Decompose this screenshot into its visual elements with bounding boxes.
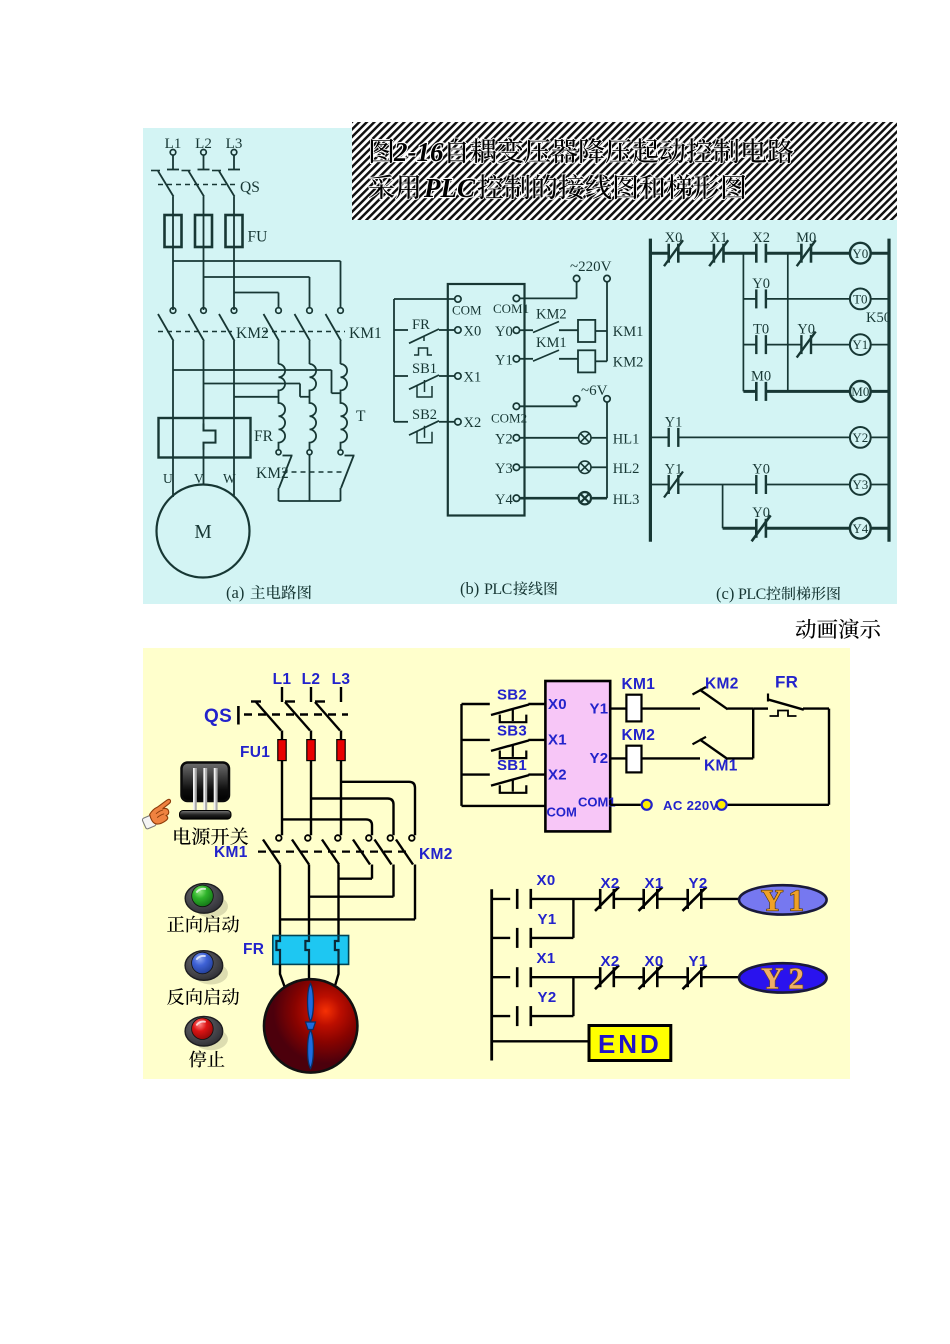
svg-text:FR: FR xyxy=(254,428,274,445)
svg-text:W: W xyxy=(223,471,236,486)
svg-text:FR: FR xyxy=(775,673,798,692)
svg-text:KM1: KM1 xyxy=(349,325,382,342)
svg-text:KM1: KM1 xyxy=(214,844,248,861)
svg-text:Y1: Y1 xyxy=(852,337,868,352)
anim contact X1 NC xyxy=(642,889,645,909)
svg-text:Y0: Y0 xyxy=(752,505,770,521)
svg-text:Y1: Y1 xyxy=(665,415,683,431)
svg-text:SB3: SB3 xyxy=(497,723,527,740)
anim rung2 wire3 xyxy=(614,976,644,978)
svg-text:Y0: Y0 xyxy=(752,462,770,478)
svg-text:KM1: KM1 xyxy=(613,324,644,340)
svg-text:KM1: KM1 xyxy=(704,758,738,775)
svg-text:~220V: ~220V xyxy=(570,259,612,275)
svg-text:X2: X2 xyxy=(601,953,620,970)
coil M0 xyxy=(850,381,871,402)
label 反向启动 xyxy=(167,988,239,1005)
svg-text:X1: X1 xyxy=(464,370,482,386)
transformer T coil xyxy=(310,364,317,450)
anim crossover KM2-1 to W xyxy=(371,865,373,879)
svg-text:KM2: KM2 xyxy=(256,465,289,482)
svg-text:Y0: Y0 xyxy=(797,322,815,338)
anim branch L2 to KM2 col2 xyxy=(311,799,394,836)
svg-text:FU1: FU1 xyxy=(240,744,270,761)
svg-text:X0: X0 xyxy=(665,230,683,246)
anim motor phase W xyxy=(337,865,339,936)
FR notch xyxy=(305,936,309,964)
AC supply row xyxy=(610,804,641,806)
anim rung1 wire4 xyxy=(657,898,687,900)
anim rung Y1 wire xyxy=(531,937,574,939)
anim wire FR to motor U xyxy=(280,964,288,996)
coil Y0 xyxy=(850,243,871,264)
svg-text:Y3: Y3 xyxy=(852,477,868,492)
svg-text:HL1: HL1 xyxy=(613,431,640,447)
svg-text:M0: M0 xyxy=(751,369,771,385)
terminal 220V right xyxy=(604,275,610,281)
button red stop xyxy=(194,1028,228,1050)
svg-text:FU: FU xyxy=(248,229,268,246)
contactor KM2 main contact xyxy=(231,308,237,314)
svg-text:M: M xyxy=(194,522,211,543)
label 停止 xyxy=(189,1050,224,1067)
svg-text:FR: FR xyxy=(243,941,264,958)
anim KM1 contact 2 xyxy=(305,835,311,841)
anim contact Y2 NC xyxy=(686,889,689,909)
coil ellipse Y2 xyxy=(739,963,827,992)
svg-text:X0: X0 xyxy=(548,696,567,713)
terminal 6V left xyxy=(573,396,579,402)
label 正向启动 xyxy=(167,915,239,932)
fuse FU xyxy=(165,215,182,247)
output Y2 lamp HL1 xyxy=(513,435,519,441)
svg-text:END: END xyxy=(598,1029,662,1059)
svg-text:U: U xyxy=(163,471,173,486)
KM2 dashed link xyxy=(158,331,232,333)
output COM2 xyxy=(513,403,519,409)
anim rung1 wire xyxy=(492,898,511,900)
wire to FR xyxy=(753,707,768,709)
anim wire FR to motor V xyxy=(308,964,310,980)
motor ball xyxy=(264,979,357,1072)
svg-text:COM: COM xyxy=(452,303,482,318)
svg-text:X2: X2 xyxy=(601,875,620,892)
button green start-forward xyxy=(194,895,228,917)
svg-text:T: T xyxy=(356,408,366,425)
anim rung2 wire4 xyxy=(657,976,687,978)
svg-text:COM1: COM1 xyxy=(578,795,616,810)
svg-text:(a): (a) xyxy=(226,583,244,602)
anim rung2 wire5 xyxy=(701,976,739,978)
svg-text:AC 220V: AC 220V xyxy=(663,798,719,813)
KM2 star dashed link xyxy=(283,471,345,473)
anim contact Y2p xyxy=(516,1006,519,1026)
tap wire B to coil2 xyxy=(204,383,301,385)
caption 动画演示 xyxy=(796,619,880,639)
svg-text:L1: L1 xyxy=(273,671,292,688)
coil T0 xyxy=(850,289,871,310)
wire L1 branch to KM1 col3 xyxy=(172,247,174,310)
ladder left rail xyxy=(649,239,652,542)
input SB1 contact xyxy=(394,375,408,377)
svg-text:KM1: KM1 xyxy=(536,335,567,351)
svg-text:Y2: Y2 xyxy=(538,989,557,1006)
rung Y1 wire xyxy=(743,344,756,346)
svg-text:X1: X1 xyxy=(548,732,567,749)
svg-text:SB2: SB2 xyxy=(497,687,527,704)
cyan diagram panel xyxy=(143,128,897,604)
contact Y0 NO xyxy=(755,289,757,308)
anim contact Y1b NC xyxy=(686,967,689,987)
contactor KM1 main contact xyxy=(276,308,282,314)
FR notch xyxy=(276,936,280,964)
svg-text:KM2: KM2 xyxy=(419,846,453,863)
anim rung1 wire2 xyxy=(531,898,600,900)
contact Y0 NC rung Y4 xyxy=(755,519,758,538)
svg-text:T0: T0 xyxy=(753,322,769,338)
svg-text:Y2: Y2 xyxy=(852,430,868,445)
svg-text:COM1: COM1 xyxy=(493,301,529,316)
svg-text:Y0: Y0 xyxy=(752,276,770,292)
svg-text:QS: QS xyxy=(204,706,232,727)
wire Y1 row xyxy=(610,707,626,709)
anim wire QS to FU1 xyxy=(281,731,283,741)
PLC box (b) xyxy=(448,284,525,516)
motor M circle xyxy=(157,485,250,578)
svg-text:Y0: Y0 xyxy=(852,246,868,261)
svg-text:PLC: PLC xyxy=(484,581,512,598)
output COM1 xyxy=(513,295,519,301)
anim rung Y1 parallel xyxy=(492,937,511,939)
svg-text:Y2: Y2 xyxy=(590,750,609,767)
svg-text:Y1: Y1 xyxy=(538,911,557,928)
svg-text:Y3: Y3 xyxy=(495,461,513,477)
contactor KM2 main contact xyxy=(201,308,207,314)
contact X2 NO xyxy=(755,244,758,263)
tap wire C to coil1 xyxy=(234,396,279,398)
switch SB2 to X0 xyxy=(462,703,490,705)
switch SB1 to X2 xyxy=(462,773,490,775)
contactor KM2 star contact mid xyxy=(307,450,312,455)
anim branch Y1 xyxy=(572,899,574,938)
yellow animation panel xyxy=(143,648,850,1079)
motor propeller xyxy=(308,984,314,1022)
svg-text:(b): (b) xyxy=(460,579,479,598)
svg-text:Y2: Y2 xyxy=(495,431,513,447)
svg-text:KM1: KM1 xyxy=(622,676,656,693)
contact Y1 NC xyxy=(668,475,670,494)
anim KM1 contact 1 xyxy=(276,835,282,841)
svg-text:X2: X2 xyxy=(752,230,770,246)
anim KM2 contact 1 xyxy=(366,835,372,841)
svg-text:T0: T0 xyxy=(853,292,867,307)
output Y4 lamp HL3 xyxy=(513,495,519,501)
contactor KM1 main contact xyxy=(307,308,313,314)
anim contact X1b xyxy=(516,967,519,987)
anim wire FR to motor W xyxy=(332,964,339,996)
transformer T coil xyxy=(279,364,286,450)
svg-text:Y1: Y1 xyxy=(689,953,708,970)
switch QS xyxy=(151,170,160,172)
transformer T coil xyxy=(341,364,348,450)
svg-text:COM: COM xyxy=(547,805,577,820)
wire L3 branch to KM1 col1 xyxy=(233,247,235,310)
svg-text:Y4: Y4 xyxy=(852,521,868,536)
title line 2 xyxy=(369,173,745,203)
svg-text:HL3: HL3 xyxy=(613,492,640,508)
svg-text:KM2: KM2 xyxy=(705,676,739,693)
pointing hand xyxy=(139,799,178,830)
output Y0 KM2 interlock KM1 coil xyxy=(513,327,519,333)
svg-text:COM2: COM2 xyxy=(491,411,527,426)
anim ladder left rail xyxy=(490,889,493,1060)
svg-text:X2: X2 xyxy=(548,767,567,784)
rung T0 wire xyxy=(743,298,756,300)
coil Y3 xyxy=(850,474,871,495)
title hatched box xyxy=(352,122,897,220)
anim contact X2 NC xyxy=(599,889,602,909)
anim rung Y2 wire xyxy=(531,1015,574,1017)
tap wire A to coil3 xyxy=(173,369,332,371)
input SB2 contact xyxy=(394,421,408,423)
svg-text:X0: X0 xyxy=(645,953,664,970)
svg-text:Y2: Y2 xyxy=(689,875,708,892)
anim rung2 wire xyxy=(492,976,511,978)
star shorting bar xyxy=(279,500,341,502)
anim KM2 contact 3 xyxy=(409,835,415,841)
anim crossover KM2-2 to V xyxy=(392,865,394,897)
svg-text:Y1: Y1 xyxy=(761,883,809,918)
anim motor phase V xyxy=(308,865,310,936)
terminal 220V left xyxy=(573,275,579,281)
thermal relay FR xyxy=(159,418,251,458)
anim rung Y2 parallel xyxy=(492,1015,511,1017)
title line 1 xyxy=(371,137,793,167)
anim KM dashed link xyxy=(258,850,406,852)
svg-text:K50: K50 xyxy=(866,310,891,326)
anim FR heater box xyxy=(273,936,349,965)
wire L2 branch to KM1 col2 xyxy=(203,247,205,310)
anim contact X0 xyxy=(516,889,519,909)
svg-text:X0: X0 xyxy=(537,872,556,889)
svg-text:X0: X0 xyxy=(464,324,482,340)
wire FR to motor xyxy=(172,458,174,497)
FR notch xyxy=(335,936,339,964)
svg-text:X1: X1 xyxy=(537,950,556,967)
anim branch Y2 xyxy=(572,977,574,1016)
svg-text:M0: M0 xyxy=(796,230,816,246)
svg-text:QS: QS xyxy=(240,179,260,196)
contact Y1 NO xyxy=(668,428,670,447)
svg-text:(c): (c) xyxy=(716,584,734,603)
svg-text:SB1: SB1 xyxy=(412,361,437,377)
wire QS to FU xyxy=(172,197,174,216)
svg-text:Y1: Y1 xyxy=(590,701,609,718)
input bus xyxy=(393,299,395,422)
anim END rung xyxy=(492,1040,589,1042)
svg-text:Y1: Y1 xyxy=(495,352,513,368)
branch vertical Y3-Y4 xyxy=(722,485,724,529)
contact M0 NO xyxy=(755,382,758,401)
rung Y4 wire xyxy=(723,527,757,530)
rung Y0 wire xyxy=(650,252,668,255)
anim wires FU1 down xyxy=(281,761,283,836)
END box xyxy=(589,1026,671,1061)
contactor KM2 star contact 3 xyxy=(338,450,343,455)
anim branch L1 to KM2 col1 xyxy=(282,819,372,835)
wire COM xyxy=(394,298,455,300)
rung Y3 wire xyxy=(650,484,668,486)
svg-text:KM2: KM2 xyxy=(622,727,656,744)
svg-text:M0: M0 xyxy=(851,384,869,399)
power switch icon xyxy=(182,763,230,802)
anim right bus xyxy=(828,709,830,805)
label 电源开关 xyxy=(174,827,248,845)
output Y3 lamp HL2 xyxy=(513,464,519,470)
coil Y2 xyxy=(850,427,871,448)
anim motor phase U xyxy=(279,865,281,936)
contact M0 NC xyxy=(800,244,803,263)
anim rung1 wire5 xyxy=(701,898,739,900)
anim contact X2b NC xyxy=(599,967,602,987)
svg-text:L3: L3 xyxy=(332,671,351,688)
svg-text:HL2: HL2 xyxy=(613,461,640,477)
anim KM2 contact 2 xyxy=(388,835,394,841)
contactor KM2 main contact xyxy=(170,308,176,314)
contactor KM1 main contact xyxy=(338,308,344,314)
svg-text:X2: X2 xyxy=(464,415,482,431)
anim contact Y1 xyxy=(516,928,519,948)
switch SB3 to X1 xyxy=(462,739,490,741)
terminal 6V right xyxy=(604,396,610,402)
coil ellipse Y1 xyxy=(739,885,827,914)
svg-text:Y2: Y2 xyxy=(761,961,809,996)
wire Y2 row xyxy=(610,757,626,759)
ladder right rail xyxy=(887,239,890,542)
contact X1 NC xyxy=(713,244,716,263)
svg-text:Y0: Y0 xyxy=(495,324,513,340)
anim crossover KM2-3 to U xyxy=(414,865,416,920)
contact T0 NO xyxy=(755,335,757,354)
contact Y0 NO rung Y3 xyxy=(755,475,757,494)
anim PLC box xyxy=(545,681,610,831)
anim COM wire xyxy=(462,805,546,807)
svg-text:Y1: Y1 xyxy=(665,462,683,478)
svg-text:KM2: KM2 xyxy=(536,306,567,322)
svg-text:KM2: KM2 xyxy=(613,354,644,370)
svg-text:L2: L2 xyxy=(302,671,321,688)
svg-text:~6V: ~6V xyxy=(581,383,608,399)
anim KM1 contact 3 xyxy=(335,835,341,841)
coil Y1 xyxy=(850,334,871,355)
anim input bus xyxy=(460,704,462,806)
svg-text:KM2: KM2 xyxy=(236,325,269,342)
svg-text:PLC: PLC xyxy=(738,586,766,603)
svg-text:FR: FR xyxy=(412,317,430,333)
svg-text:2-16: 2-16 xyxy=(393,137,444,167)
KM1 dashed link xyxy=(263,331,345,333)
anim rung2 wire2 xyxy=(531,976,600,978)
anim supply stubs xyxy=(281,687,283,702)
contact Y0 NC xyxy=(800,335,802,354)
svg-text:PLC: PLC xyxy=(423,173,476,203)
rung Y2 wire xyxy=(650,436,668,438)
svg-text:X1: X1 xyxy=(710,230,728,246)
anim rung1 wire3 xyxy=(614,898,644,900)
rung M0 wire xyxy=(743,390,756,393)
anim branch L3 to KM2 col3 xyxy=(341,782,415,835)
contactor KM2 star contact 1 xyxy=(276,450,281,455)
interlock junction wire xyxy=(752,709,754,759)
svg-text:Y4: Y4 xyxy=(495,492,513,508)
svg-text:SB2: SB2 xyxy=(412,407,437,423)
button blue start-reverse xyxy=(194,963,228,985)
anim contact X0b NC xyxy=(642,967,645,987)
svg-text:SB1: SB1 xyxy=(497,757,527,774)
branch vertical 2 xyxy=(787,253,789,391)
branch vertical 1 xyxy=(742,253,744,391)
coil Y4 xyxy=(850,518,871,539)
input FR contact xyxy=(394,329,408,331)
contact X0 NC xyxy=(667,244,670,263)
svg-text:X1: X1 xyxy=(645,875,664,892)
output Y1 KM1 interlock KM2 coil xyxy=(513,356,519,362)
